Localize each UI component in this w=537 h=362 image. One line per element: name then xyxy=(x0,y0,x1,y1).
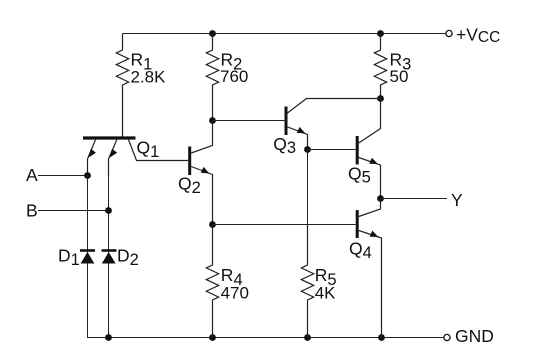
node bottom rail / Q4 emitter xyxy=(378,334,385,341)
transistor Q5 base bar xyxy=(356,136,359,165)
node bottom rail / emitter-2 column xyxy=(105,334,112,341)
node Q3 emitter / R5 / Q5 base wire xyxy=(304,146,311,153)
node R2 bottom / Q2 collector / Q3 base xyxy=(209,117,216,124)
node R3 bottom / Q3 collector / Q5 collector xyxy=(377,95,384,102)
svg-text:50: 50 xyxy=(390,67,409,86)
svg-text:4K: 4K xyxy=(315,284,336,303)
svg-text:B: B xyxy=(26,201,38,221)
node top rail / R3 xyxy=(377,30,384,37)
terminal +VCC xyxy=(446,30,452,36)
transistor Q3 base bar xyxy=(285,107,288,136)
terminal GND xyxy=(444,334,450,340)
wire Q3 emitter node down to R5 xyxy=(307,150,309,266)
node input A junction xyxy=(84,172,91,179)
transistor Q3 collector xyxy=(288,99,381,114)
wire input B xyxy=(38,210,109,212)
svg-text:Q1: Q1 xyxy=(137,137,160,161)
transistor Q3 emitter xyxy=(288,127,308,150)
wire Q2 emitter node to Q4 base xyxy=(213,224,356,226)
svg-text:Q2: Q2 xyxy=(178,174,201,197)
resistor R4 xyxy=(206,225,218,338)
transistor Q4 base bar xyxy=(356,210,359,238)
svg-text:470: 470 xyxy=(221,284,249,303)
transistor Q1 base bar xyxy=(83,136,136,139)
node bottom rail / R4 xyxy=(209,334,216,341)
transistor Q1 collector xyxy=(129,140,189,161)
transistor Q2 base bar xyxy=(188,147,191,176)
node Q5 emitter / Q4 collector / output Y xyxy=(377,195,384,202)
transistor Q4 emitter xyxy=(359,231,382,338)
svg-text:2.8K: 2.8K xyxy=(131,68,167,87)
svg-text:GND: GND xyxy=(455,326,494,346)
svg-text:+VCC: +VCC xyxy=(456,25,500,47)
node Q2 emitter / R4 / Q4 base wire xyxy=(209,221,216,228)
svg-text:Y: Y xyxy=(451,190,463,210)
wire R2 node to Q3 base xyxy=(213,120,285,122)
svg-text:D1: D1 xyxy=(58,246,80,269)
resistor R3 xyxy=(374,34,386,99)
wire output Y xyxy=(381,198,448,200)
transistor Q5 collector xyxy=(359,99,381,144)
svg-text:A: A xyxy=(26,165,38,185)
wire input A xyxy=(38,175,88,177)
svg-text:760: 760 xyxy=(220,67,248,86)
svg-text:Q4: Q4 xyxy=(349,239,372,262)
resistor R1 xyxy=(116,34,128,139)
wire emitter-2 column down to ground rail xyxy=(108,176,110,338)
svg-text:Q5: Q5 xyxy=(348,163,371,186)
transistor Q5 emitter xyxy=(359,158,381,199)
node input B junction xyxy=(105,207,112,214)
node top rail / R2 xyxy=(209,30,216,37)
transistor Q4 collector xyxy=(359,199,381,217)
resistor R2 xyxy=(206,34,218,121)
node bottom rail / R5 xyxy=(304,334,311,341)
wire Q3 emitter node to Q5 base xyxy=(308,149,356,151)
diode D1 xyxy=(80,249,95,252)
wire top +VCC rail xyxy=(123,33,446,35)
diode D2 xyxy=(102,249,117,252)
resistor R5 xyxy=(301,225,313,338)
transistor Q2 collector xyxy=(191,121,212,154)
svg-text:Q3: Q3 xyxy=(273,134,296,157)
transistor Q2 emitter xyxy=(191,167,212,226)
wire emitter-1 column down to ground rail corner xyxy=(88,176,444,338)
transistor Q1 emitter 1 xyxy=(88,140,96,176)
transistor Q1 emitter 2 xyxy=(109,140,117,176)
svg-text:D2: D2 xyxy=(117,246,139,269)
